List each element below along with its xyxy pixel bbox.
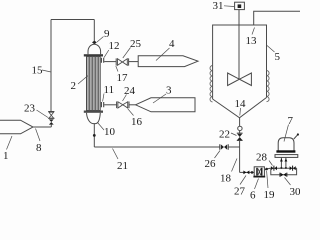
wire manifold bbox=[270, 167, 297, 169]
fitting 28 bbox=[271, 166, 277, 170]
valve 22 bbox=[239, 131, 241, 134]
vessel 3 bbox=[136, 98, 196, 112]
svg-text:22: 22 bbox=[219, 129, 230, 141]
wire valve 24 to vessel 3 bbox=[129, 104, 136, 106]
pump 6 base bbox=[253, 176, 265, 178]
svg-text:3: 3 bbox=[166, 85, 172, 97]
svg-text:1: 1 bbox=[3, 150, 9, 162]
column C2 bottom flange bbox=[84, 111, 103, 113]
svg-text:4: 4 bbox=[169, 38, 175, 50]
svg-text:10: 10 bbox=[104, 126, 116, 138]
wire pump outlet bbox=[264, 168, 270, 170]
tank cone bbox=[213, 98, 267, 118]
svg-text:6: 6 bbox=[250, 190, 256, 201]
wire nozzle11 to valve 24 bbox=[104, 104, 116, 106]
sight glass circle bbox=[238, 126, 242, 130]
wire line 15 top horizontal bbox=[51, 19, 94, 21]
svg-text:19: 19 bbox=[264, 189, 276, 200]
valve 24 bbox=[117, 102, 129, 109]
column C2 bottom head bbox=[87, 113, 101, 124]
svg-text:9: 9 bbox=[104, 28, 110, 40]
column C2 shell bbox=[87, 57, 101, 111]
fitting 9 bbox=[92, 41, 97, 45]
wire line 21 from column bottom bbox=[93, 124, 95, 147]
wire vessel1 to valve 23 bbox=[33, 126, 51, 128]
svg-text:27: 27 bbox=[234, 186, 246, 198]
valve 23 bbox=[48, 112, 54, 119]
valve 17 bbox=[116, 58, 128, 65]
svg-text:31: 31 bbox=[213, 0, 224, 12]
wire valve 17 to vessel 4 bbox=[129, 61, 139, 63]
svg-text:2: 2 bbox=[71, 80, 77, 92]
svg-text:11: 11 bbox=[104, 84, 115, 96]
svg-text:13: 13 bbox=[246, 35, 258, 47]
svg-text:17: 17 bbox=[117, 72, 129, 84]
wire line 15 left vertical bbox=[50, 20, 52, 112]
svg-text:12: 12 bbox=[109, 40, 120, 52]
dome 7 top nozzle bbox=[294, 135, 298, 139]
svg-text:26: 26 bbox=[205, 158, 217, 170]
column C2 top dome bbox=[88, 44, 101, 54]
riser 1 to collector 7 bbox=[280, 158, 282, 169]
tank left coil scallops bbox=[210, 66, 213, 102]
pump 6 body bbox=[254, 167, 264, 177]
fitting dot 19 bbox=[265, 168, 268, 171]
agitated tank 5 outline bbox=[213, 25, 267, 99]
wire pipe 18 vertical bbox=[239, 140, 241, 172]
dome 7 flange band bbox=[276, 150, 295, 152]
wire bottom pipe bbox=[240, 171, 255, 173]
tank right coil scallops bbox=[267, 71, 270, 102]
svg-text:18: 18 bbox=[220, 173, 232, 185]
agitator shaft bbox=[238, 10, 240, 79]
wire nozzle12 to valve 17 bbox=[104, 61, 116, 63]
wire drop to fitting 9 bbox=[93, 20, 95, 42]
fitting 29 bbox=[290, 166, 296, 170]
wire line 21 horizontal bbox=[94, 146, 220, 148]
column C2 tubes bbox=[88, 57, 99, 111]
column C2 top flange bbox=[84, 54, 103, 56]
svg-text:15: 15 bbox=[32, 65, 44, 77]
vessel 1 bbox=[0, 120, 33, 134]
svg-text:16: 16 bbox=[131, 116, 143, 128]
svg-text:21: 21 bbox=[117, 160, 128, 172]
valve 30 bbox=[280, 173, 287, 177]
agitator impeller bbox=[228, 73, 252, 86]
nozzle 12 flange bbox=[101, 58, 103, 63]
svg-text:23: 23 bbox=[24, 103, 36, 115]
svg-text:5: 5 bbox=[275, 51, 281, 63]
riser 2 to collector 7 bbox=[285, 158, 287, 169]
svg-text:28: 28 bbox=[256, 152, 268, 164]
svg-text:30: 30 bbox=[290, 186, 301, 198]
wire valve 26 to pipe 18 bbox=[228, 146, 239, 148]
dome 7 base plate bbox=[275, 155, 298, 158]
nozzle 11 flange bbox=[101, 102, 103, 107]
svg-text:8: 8 bbox=[36, 142, 42, 154]
vessel 4 bbox=[138, 56, 198, 67]
wire bypass loop bbox=[271, 168, 297, 175]
fitting dot on line 21 bbox=[93, 134, 96, 137]
collector dome 7 bbox=[278, 138, 294, 151]
wire line 13 bbox=[254, 11, 300, 25]
fitting dot before pump 6 bbox=[251, 171, 254, 174]
motor M31 bbox=[235, 2, 245, 9]
valve 27 bbox=[243, 171, 249, 175]
tank outlet stub bbox=[239, 118, 241, 126]
svg-text:25: 25 bbox=[130, 38, 142, 50]
valve 26 bbox=[220, 144, 228, 150]
